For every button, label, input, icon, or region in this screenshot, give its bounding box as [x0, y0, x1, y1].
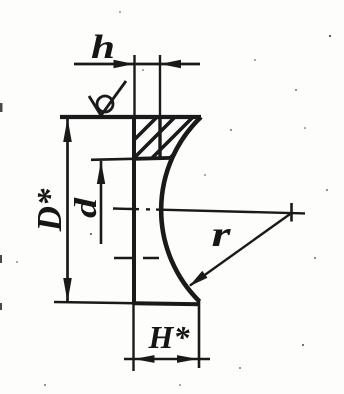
- svg-text:h: h: [91, 29, 115, 66]
- svg-text:D*: D*: [30, 188, 69, 232]
- svg-text:d: d: [67, 197, 103, 218]
- svg-text:H*: H*: [148, 319, 191, 355]
- svg-text:r: r: [212, 214, 232, 254]
